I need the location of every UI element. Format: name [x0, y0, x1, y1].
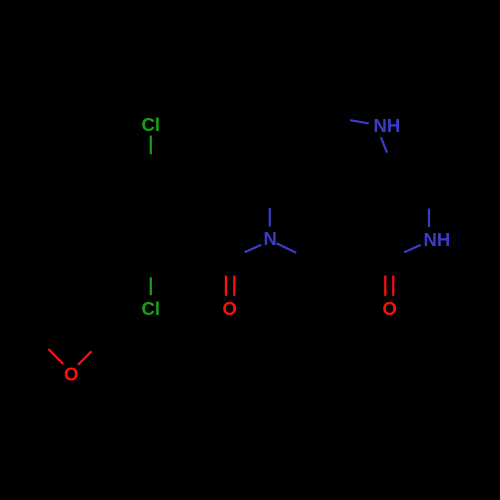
svg-text:O: O: [383, 298, 397, 319]
double bond C=O left line: [225, 276, 227, 296]
svg-text:NH: NH: [424, 229, 451, 250]
bond stub N down-right: [277, 243, 297, 252]
svg-text:Cl: Cl: [142, 114, 161, 135]
bond stub N up: [269, 208, 271, 227]
bond stub NH-lactam up: [428, 209, 430, 228]
bond stub NH-lactam down-left: [404, 245, 421, 252]
svg-text:O: O: [64, 364, 78, 385]
bond stub furan O left: [48, 349, 63, 364]
double bond C=O right line: [233, 276, 235, 296]
bond stub NH-pyrrole down: [381, 137, 387, 152]
double bond lactam C=O left line: [384, 276, 386, 296]
double bond lactam C=O right line: [392, 276, 394, 296]
bond stub N down-left: [245, 245, 262, 253]
svg-text:O: O: [223, 298, 237, 319]
svg-text:Cl: Cl: [142, 298, 161, 319]
svg-text:N: N: [264, 228, 277, 249]
svg-text:NH: NH: [374, 115, 401, 136]
bond stub NH-pyrrole left: [350, 120, 369, 123]
bond stub furan O right: [78, 351, 92, 365]
bond stub Cl-top to ring C: [150, 136, 152, 155]
bond stub Cl-bottom to ring C: [150, 277, 152, 295]
